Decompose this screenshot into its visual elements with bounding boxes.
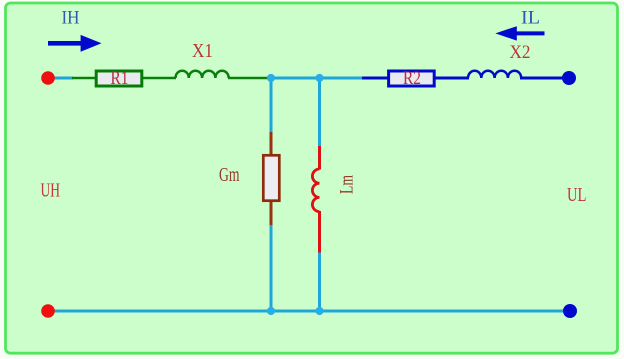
svg-text:IL: IL <box>521 8 540 29</box>
node B junction dot (top of Lm branch) <box>315 74 323 82</box>
inductor Lm coil (red, 3 humps bulging left) <box>312 169 319 212</box>
wire: top net left stub (cyan) from HV terminal to R1 lead <box>48 77 73 80</box>
wire: top net between node A and node B (cyan) <box>268 77 323 80</box>
wire: X1 to node A (green) <box>228 77 271 80</box>
wire: vertical branch of Gm, lower cyan segment <box>270 224 273 311</box>
current arrow IL (blue, pointing left) <box>495 26 544 40</box>
wire: X2 to LV terminal (blue) <box>520 77 569 80</box>
wire: vertical branch of Gm, upper cyan segment <box>270 78 273 133</box>
svg-text:UL: UL <box>567 184 587 206</box>
svg-text:X2: X2 <box>510 42 531 63</box>
junction dot bottom of Lm branch <box>315 307 323 315</box>
svg-text:IH: IH <box>62 8 80 29</box>
inductor Lm lower lead (red) <box>318 211 321 253</box>
LV+ terminal (blue dot) <box>562 71 576 85</box>
node A junction dot (top of Gm branch) <box>267 74 275 82</box>
LV- terminal (blue dot) <box>563 304 577 318</box>
inductor Lm upper lead (red) <box>318 146 321 170</box>
svg-text:Gm: Gm <box>219 165 240 186</box>
svg-text:R1: R1 <box>111 68 129 89</box>
HV+ terminal (red dot) <box>41 71 55 85</box>
resistor R2 leads (blue wire) <box>362 77 388 80</box>
junction dot bottom of Gm branch <box>267 307 275 315</box>
wire: bottom net (cyan) from HV- terminal to LV- terminal <box>48 310 570 313</box>
HV- terminal (red dot) <box>41 304 55 318</box>
inductor X2 (blue coil, 4 humps) <box>468 71 521 78</box>
wire: vertical branch of Lm, upper cyan segment <box>318 78 321 146</box>
conductance Gm upper lead (brown) <box>270 132 273 155</box>
resistor R2 body <box>389 71 435 86</box>
wire: top net node B to R2 lead (cyan) <box>319 77 363 80</box>
resistor R1 body <box>96 71 142 86</box>
conductance Gm lower lead (brown) <box>270 202 273 225</box>
wire: vertical branch of Lm, lower cyan segment <box>318 252 321 311</box>
inductor X1 (green coil, 4 humps) <box>176 71 229 78</box>
svg-text:R2: R2 <box>403 68 421 89</box>
svg-text:X1: X1 <box>192 40 213 62</box>
current arrow IH (blue, pointing right) <box>48 35 102 52</box>
resistor R1 leads (green wire) <box>72 77 96 80</box>
svg-text:Lm: Lm <box>337 175 358 194</box>
svg-text:UH: UH <box>41 180 61 202</box>
conductance Gm body (vertical box) <box>263 155 279 200</box>
